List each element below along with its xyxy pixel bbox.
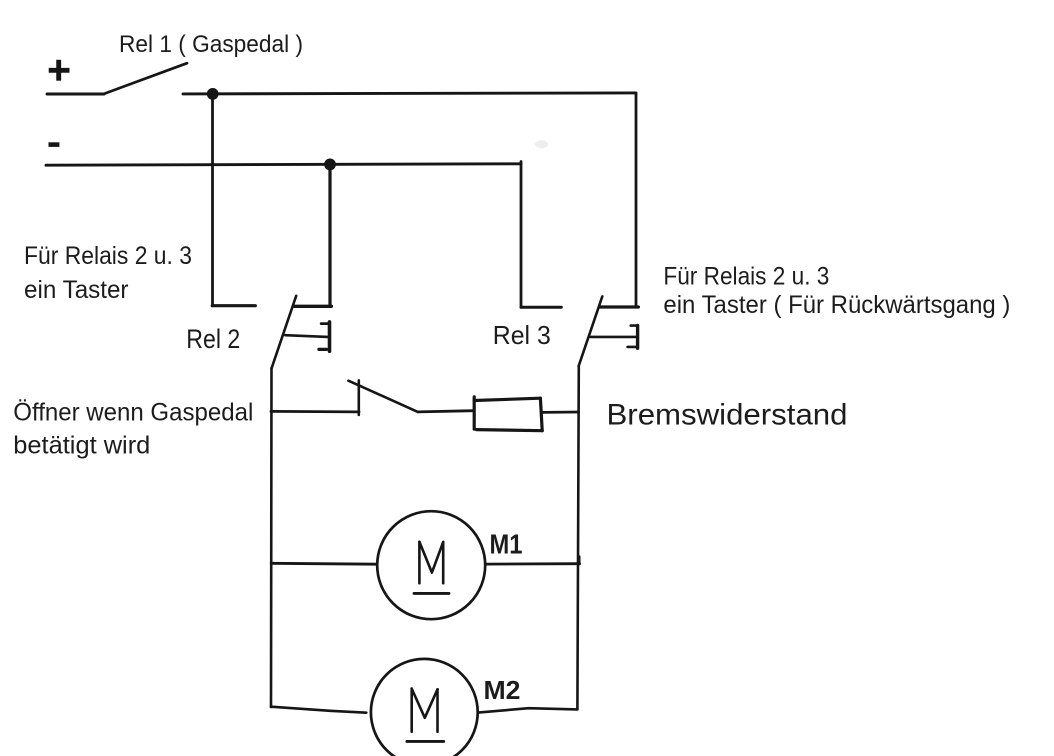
- svg-text:ein Taster ( Für Rückwärtsgang: ein Taster ( Für Rückwärtsgang ): [663, 291, 1010, 319]
- wire + rail left segment: [47, 93, 104, 96]
- wire + rail right segment: [183, 93, 636, 94]
- svg-text:Rel 1 ( Gaspedal ): Rel 1 ( Gaspedal ): [119, 31, 303, 58]
- wire - rail: [46, 164, 521, 165]
- relay contact Rel 2 fixed arm: [212, 304, 255, 307]
- opener switch lever: [348, 381, 417, 412]
- junction node on + rail: [207, 88, 219, 100]
- svg-text:Bremswiderstand: Bremswiderstand: [607, 399, 848, 432]
- svg-text:M1: M1: [490, 529, 523, 560]
- relay contact Rel 3 pivot arm: [600, 305, 639, 308]
- wire left branch vertical (Rel 2 lever to bottom): [270, 368, 273, 707]
- wire from - junction down to Rel 2 lever pivot: [328, 164, 331, 306]
- wire M1 row right: [485, 562, 579, 565]
- motor M2: [371, 659, 478, 756]
- switch Rel 1 lever (Gaspedal contact): [105, 63, 188, 93]
- svg-text:M2: M2: [484, 675, 521, 705]
- minus terminal symbol: [49, 142, 60, 147]
- wire right branch vertical (Rel 3 lever to bottom): [577, 366, 578, 709]
- smudge artifact: [535, 140, 548, 148]
- svg-text:ein Taster: ein Taster: [24, 276, 129, 304]
- svg-text:Für Relais 2 u. 3: Für Relais 2 u. 3: [663, 263, 829, 291]
- motor M1: [377, 511, 485, 619]
- wire M1 row left: [271, 562, 377, 566]
- relay contact Rel 2 lever: [272, 296, 297, 368]
- wire from + junction down to Rel 2 fixed contact: [211, 94, 214, 306]
- wire resistor to right branch: [543, 411, 579, 414]
- wire branch to opener switch: [271, 410, 359, 413]
- svg-text:betätigt wird: betätigt wird: [13, 432, 150, 460]
- svg-text:Rel 3: Rel 3: [493, 320, 551, 350]
- plus terminal symbol: [49, 60, 70, 81]
- junction node on - rail: [324, 159, 336, 171]
- svg-text:Öffner wenn Gaspedal: Öffner wenn Gaspedal: [13, 399, 253, 427]
- relay contact Rel 3 fixed arm: [521, 306, 561, 309]
- relay Rel 2 actuator symbol: [285, 322, 329, 351]
- relay Rel 3 actuator symbol: [591, 325, 638, 348]
- wire M2 row bottom right: [478, 708, 577, 712]
- resistor Bremswiderstand body: [474, 397, 542, 431]
- relay contact Rel 2 pivot arm: [295, 305, 332, 308]
- wire M2 row bottom left: [271, 707, 366, 713]
- wire corner from - rail down to Rel 3 fixed contact: [520, 162, 523, 308]
- opener switch fixed contact tick: [357, 380, 360, 415]
- svg-text:Rel 2: Rel 2: [186, 324, 240, 354]
- relay contact Rel 3 lever: [579, 296, 603, 366]
- svg-text:Für Relais 2 u. 3: Für Relais 2 u. 3: [24, 242, 192, 270]
- wire corner from + rail down to Rel 3 lever pivot: [635, 93, 638, 307]
- wire opener to resistor: [418, 411, 474, 412]
